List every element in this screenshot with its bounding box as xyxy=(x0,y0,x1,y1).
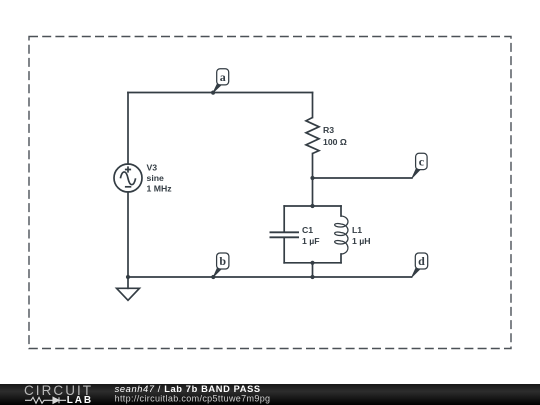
node a flag xyxy=(211,69,229,95)
svg-text:1 µF: 1 µF xyxy=(302,236,320,246)
svg-text:R3: R3 xyxy=(323,125,334,135)
wire V3 top lead xyxy=(127,93,129,165)
svg-text:L1: L1 xyxy=(352,225,362,235)
C1 labels xyxy=(302,225,320,246)
wire R3 bottom to tank top xyxy=(312,154,314,207)
V3 labels xyxy=(147,163,173,194)
svg-text:1 µH: 1 µH xyxy=(352,236,371,246)
wire V3 bottom lead xyxy=(127,192,129,277)
svg-text:1 MHz: 1 MHz xyxy=(147,183,173,193)
R3 labels xyxy=(323,125,347,147)
svg-text:V3: V3 xyxy=(147,163,158,173)
inductor L1 xyxy=(335,216,348,254)
node c flag xyxy=(412,153,427,178)
svg-text:sine: sine xyxy=(147,173,165,183)
resistor R3 xyxy=(306,118,319,154)
svg-text:b: b xyxy=(219,254,226,268)
wire tank bottom xyxy=(284,262,341,264)
wire ground stub xyxy=(127,277,129,288)
wire C1 top lead xyxy=(283,206,285,231)
wire node c branch xyxy=(313,177,412,179)
svg-text:http://circuitlab.com/cp5ttuwe: http://circuitlab.com/cp5ttuwe7m9pg xyxy=(115,394,271,404)
svg-text:d: d xyxy=(418,254,425,268)
junction bottom wire xyxy=(310,275,314,279)
wire top (V3 top to R3 top) xyxy=(128,92,313,94)
svg-text:LAB: LAB xyxy=(67,395,93,405)
svg-text:100 Ω: 100 Ω xyxy=(323,137,347,147)
wire bottom (ground node to node d) xyxy=(128,276,412,278)
wire C1 bottom lead xyxy=(283,238,285,263)
svg-text:seanh47 / Lab 7b BAND PASS: seanh47 / Lab 7b BAND PASS xyxy=(115,384,261,394)
junction tank top xyxy=(310,204,314,208)
wire R3 top lead xyxy=(312,93,314,118)
svg-text:C1: C1 xyxy=(302,225,313,235)
wire L1 top lead xyxy=(340,206,342,216)
wire tank top xyxy=(284,205,341,207)
footer logo waveform xyxy=(25,397,49,403)
junction node c xyxy=(310,176,314,180)
capacitor C1 xyxy=(270,232,300,237)
ground xyxy=(117,288,140,300)
svg-text:c: c xyxy=(419,155,425,169)
junction at ground node xyxy=(126,275,130,279)
wire tank center stub xyxy=(312,263,314,277)
L1 labels xyxy=(352,225,371,246)
node d flag xyxy=(412,253,428,277)
svg-text:a: a xyxy=(220,70,226,84)
node b flag xyxy=(211,253,229,279)
wire L1 bottom lead xyxy=(340,254,342,263)
junction tank bottom xyxy=(310,261,314,265)
voltage source V3 xyxy=(114,164,142,192)
